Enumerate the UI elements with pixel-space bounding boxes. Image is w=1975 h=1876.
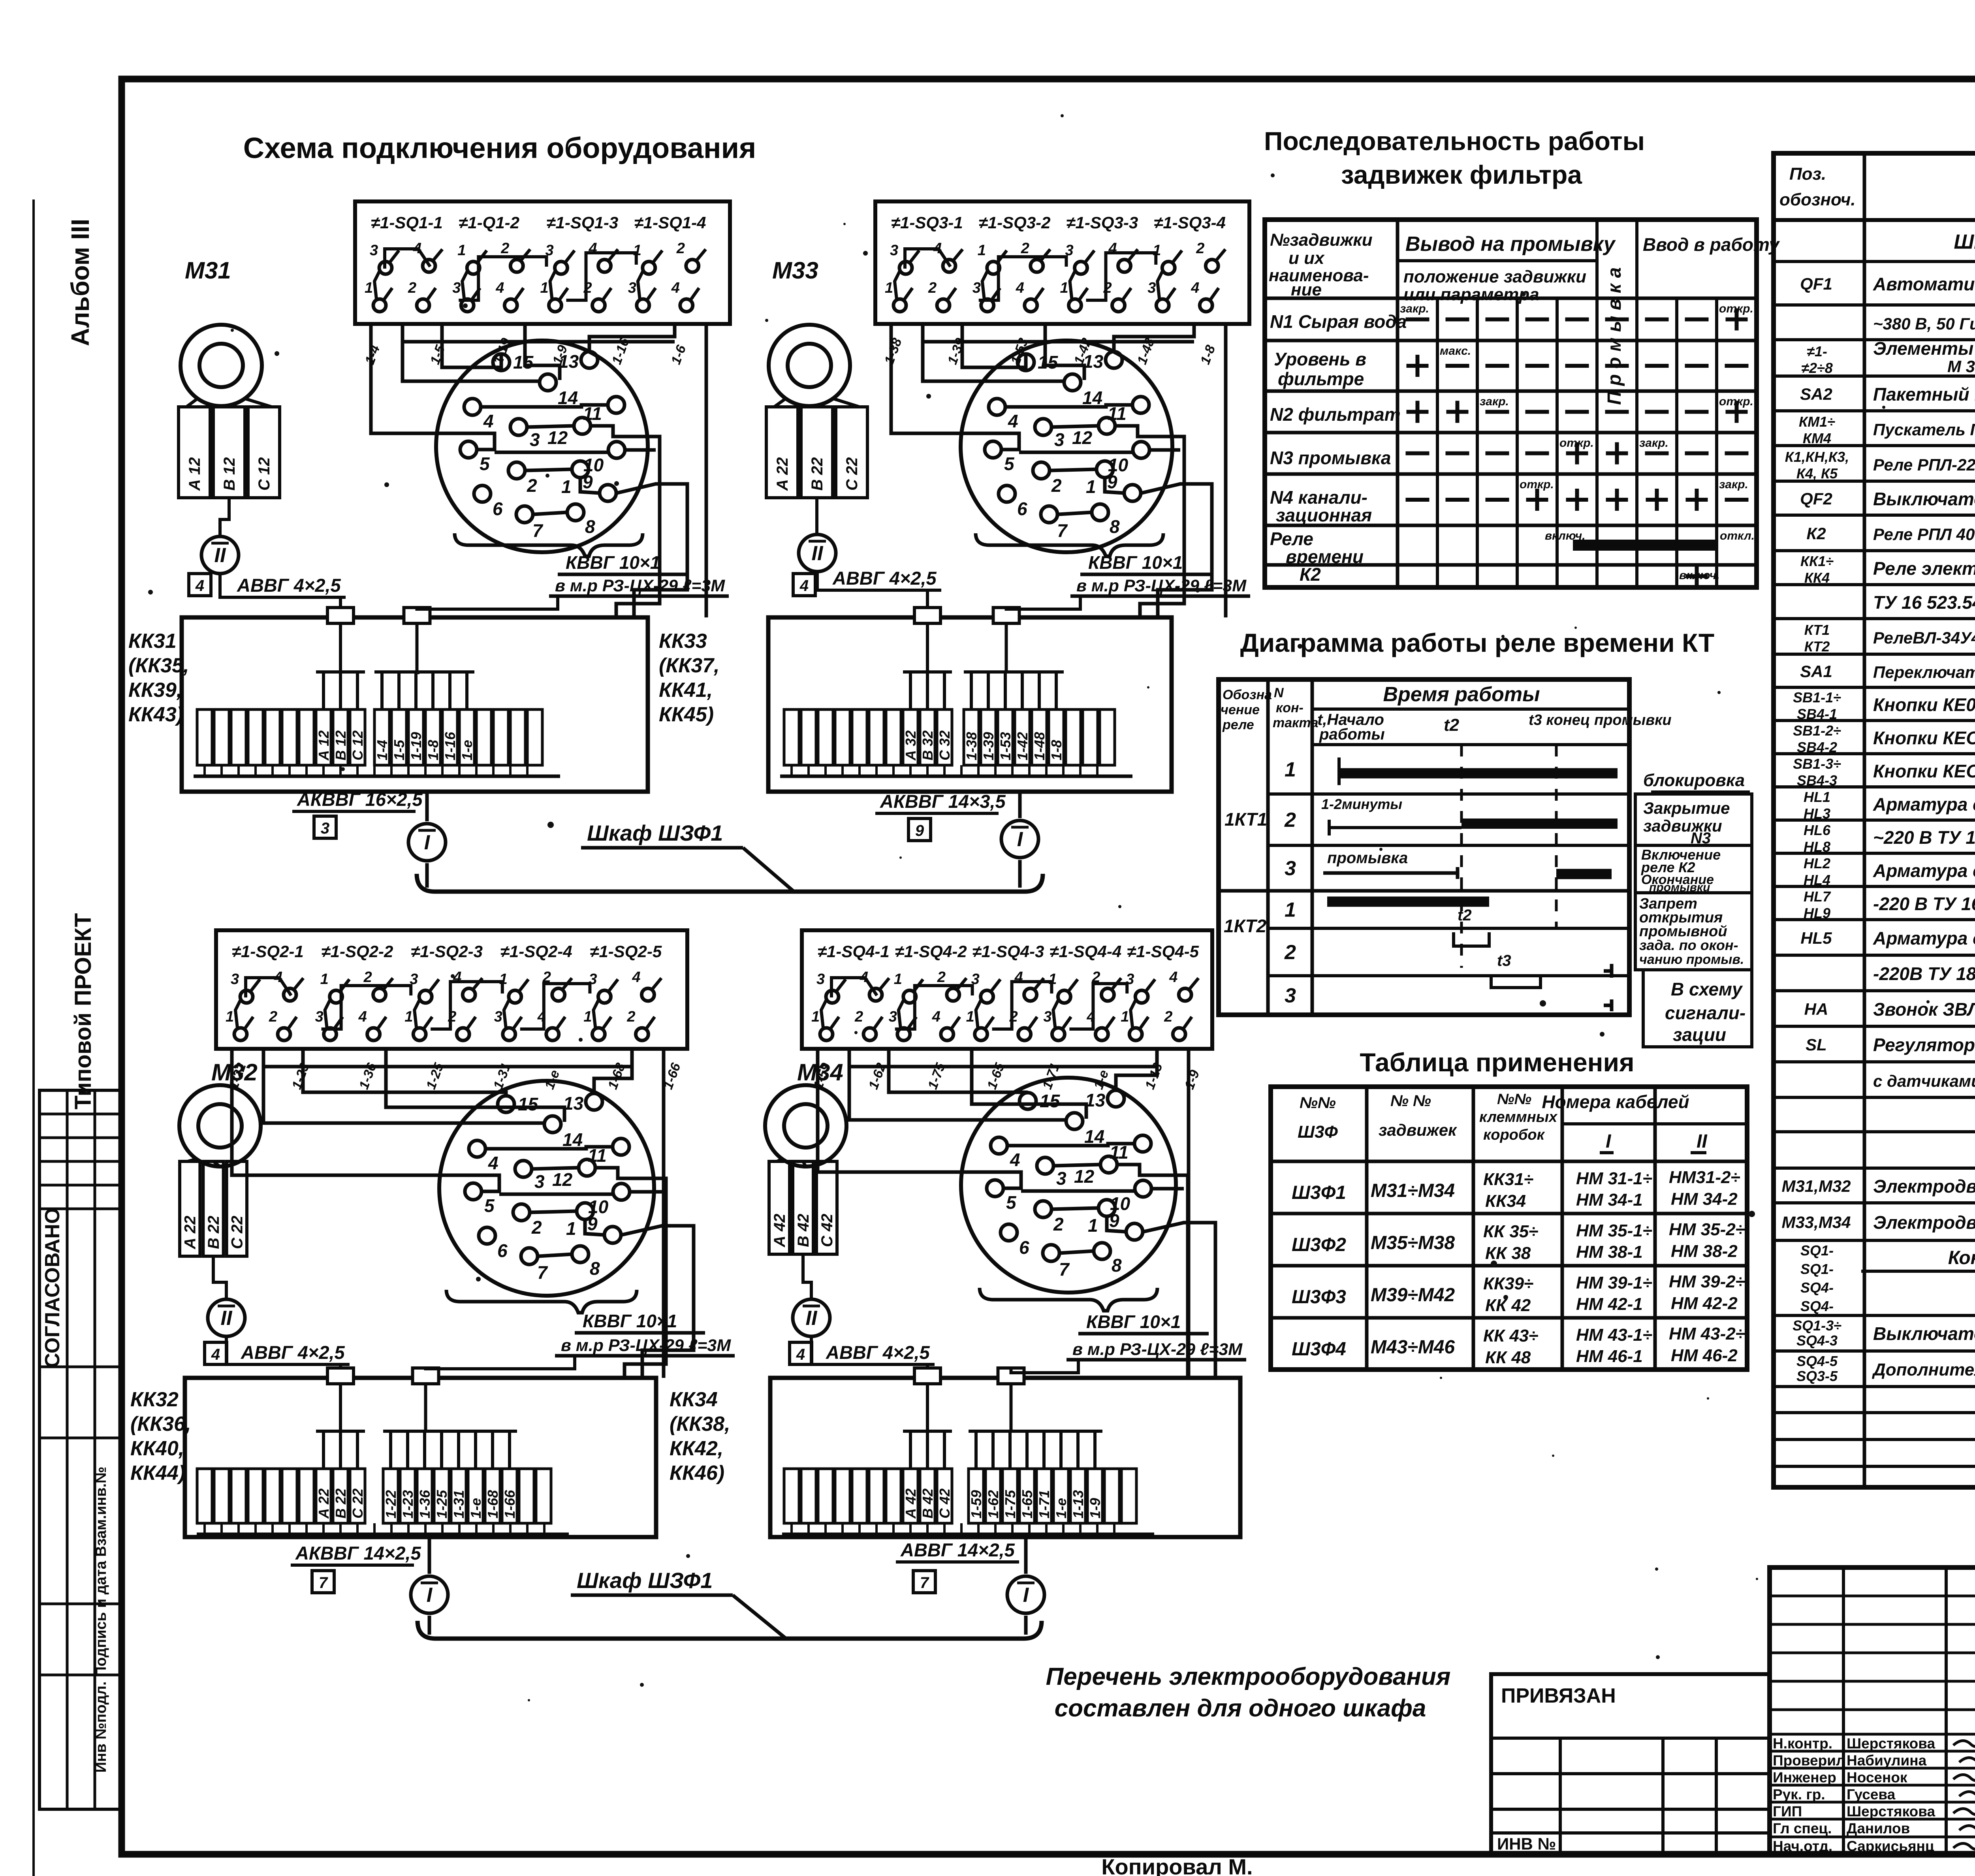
svg-text:1: 1	[540, 280, 549, 296]
svg-text:8: 8	[1112, 1255, 1122, 1276]
sheet outer edge left	[32, 199, 35, 1876]
svg-text:ние: ние	[1291, 280, 1322, 299]
limit switch ≠1-SQ1-3	[540, 213, 619, 312]
svg-text:2: 2	[854, 1009, 863, 1025]
svg-text:2: 2	[1284, 809, 1296, 832]
limit switch ≠1-SQ4-3	[966, 942, 1044, 1041]
svg-text:чанию промыв.: чанию промыв.	[1639, 952, 1744, 967]
svg-text:2: 2	[269, 1009, 277, 1025]
svg-text:I: I	[1017, 828, 1023, 851]
svg-text:≠1-SQ4-4: ≠1-SQ4-4	[1050, 942, 1121, 961]
svg-text:В 32: В 32	[920, 730, 936, 760]
svg-text:задвижек: задвижек	[1379, 1121, 1457, 1139]
table: Posledovatelnost raboty zadvizhek filtra	[1264, 126, 1780, 587]
svg-text:НМ 38-2: НМ 38-2	[1671, 1242, 1738, 1261]
svg-text:1-13: 1-13	[1070, 1490, 1086, 1518]
svg-text:Данилов: Данилов	[1847, 1820, 1910, 1836]
svg-text:К4, К5: К4, К5	[1796, 465, 1838, 482]
svg-text:КК4: КК4	[1804, 570, 1830, 586]
svg-text:≠1-SQ2-4: ≠1-SQ2-4	[500, 942, 572, 961]
svg-text:6: 6	[493, 499, 503, 519]
svg-text:составлен для одного шкафа: составлен для одного шкафа	[1055, 1695, 1426, 1722]
svg-text:6: 6	[1017, 499, 1027, 519]
svg-text:Кнопки КЕО 11УЗ: Кнопки КЕО 11УЗ исп. 28	[1873, 761, 1975, 781]
svg-text:≠1-SQ3-1: ≠1-SQ3-1	[891, 213, 963, 232]
svg-text:HL2: HL2	[1804, 855, 1830, 871]
svg-text:t3 конец промывки: t3 конец промывки	[1529, 712, 1672, 728]
svg-text:Ш3Ф3: Ш3Ф3	[1292, 1287, 1346, 1308]
terminal box КК31	[182, 617, 648, 792]
svg-text:Копировал М.: Копировал М.	[1101, 1854, 1253, 1876]
svg-text:≠1-SQ1-4: ≠1-SQ1-4	[634, 213, 706, 232]
left margin stamp table	[39, 1090, 122, 1809]
svg-text:1-59: 1-59	[968, 1490, 984, 1518]
svg-text:7: 7	[1059, 1259, 1070, 1280]
wires connector to terminal box right side	[1183, 1175, 1215, 1378]
svg-text:А 22: А 22	[316, 1488, 332, 1519]
svg-text:SB1-2÷: SB1-2÷	[1793, 723, 1841, 739]
svg-text:12: 12	[1072, 427, 1093, 448]
cable label КВВГ 10×1	[1070, 552, 1250, 596]
svg-text:КК 48: КК 48	[1485, 1348, 1531, 1367]
svg-text:АВВГ 4×2,5: АВВГ 4×2,5	[832, 568, 937, 589]
svg-text:1-2минуты: 1-2минуты	[1321, 796, 1402, 812]
cable marker box 9	[908, 819, 931, 841]
svg-text:НМ 35-2÷: НМ 35-2÷	[1669, 1220, 1745, 1239]
svg-text:14: 14	[558, 388, 578, 408]
svg-text:HL5: HL5	[1800, 929, 1832, 947]
svg-text:≠1-SQ3-2: ≠1-SQ3-2	[979, 213, 1051, 232]
svg-text:3: 3	[1043, 1009, 1051, 1025]
svg-text:Шкаф ШЗФ1: Шкаф ШЗФ1	[587, 820, 723, 845]
svg-text:М34: М34	[797, 1059, 843, 1086]
limit switch bank ≠1	[216, 930, 687, 1049]
bank lead-out wire labels	[226, 1061, 684, 1091]
svg-text:1: 1	[885, 280, 893, 296]
svg-text:1-71: 1-71	[1036, 1490, 1052, 1518]
svg-text:SQ1-3÷: SQ1-3÷	[1793, 1317, 1841, 1334]
svg-text:II: II	[221, 1307, 233, 1330]
limit switch ≠1-SQ1-1	[365, 213, 443, 312]
svg-text:КМ4: КМ4	[1803, 430, 1831, 446]
svg-text:№№: №№	[1497, 1091, 1531, 1108]
svg-text:включ.: включ.	[1679, 569, 1720, 582]
svg-text:2: 2	[527, 475, 537, 496]
svg-text:КК 43÷: КК 43÷	[1483, 1326, 1538, 1345]
svg-text:М31: М31	[185, 257, 231, 284]
cabinet boundary line Shkaf ShZF1	[417, 820, 1043, 892]
svg-text:Закрытие: Закрытие	[1643, 799, 1730, 817]
svg-text:3: 3	[534, 1171, 545, 1192]
svg-text:3: 3	[231, 971, 239, 988]
svg-text:КК 38: КК 38	[1485, 1244, 1531, 1263]
svg-text:закр.: закр.	[1400, 302, 1429, 315]
table: Tablitsa primeneniya	[1271, 1048, 1747, 1370]
svg-text:С 42: С 42	[937, 1488, 953, 1518]
svg-text:3: 3	[1285, 984, 1296, 1007]
svg-text:9: 9	[583, 472, 593, 492]
svg-text:3: 3	[315, 1009, 324, 1025]
svg-text:НМ 43-2÷: НМ 43-2÷	[1669, 1324, 1745, 1343]
svg-text:Звонок ЗВЛ-220 ТУ16.739.059-7: Звонок ЗВЛ-220 ТУ16.739.059-76	[1873, 999, 1975, 1020]
svg-text:положение задвижки: положение задвижки	[1403, 267, 1586, 286]
svg-text:2: 2	[408, 280, 416, 296]
svg-text:3: 3	[1056, 1168, 1066, 1189]
table: Diagramma raboty rele vremeni KT	[1219, 628, 1752, 1047]
svg-text:1-42: 1-42	[1014, 732, 1031, 760]
cable brace	[455, 533, 643, 556]
svg-text:-220 В ТУ 16.535.582-76: -220 В ТУ 16.535.582-76	[1873, 894, 1975, 914]
svg-text:1-8: 1-8	[1048, 740, 1065, 760]
svg-text:Набиулина: Набиулина	[1847, 1752, 1927, 1769]
svg-text:В 42: В 42	[795, 1214, 812, 1248]
wires connector to terminal box right side	[616, 437, 687, 617]
svg-text:2: 2	[1284, 941, 1296, 964]
note: perechen elektrooborudovaniya	[1046, 1663, 1451, 1722]
svg-text:HL8: HL8	[1804, 839, 1830, 855]
svg-text:15: 15	[518, 1094, 539, 1114]
svg-text:SB1-3÷: SB1-3÷	[1793, 756, 1841, 772]
svg-text:Альбом III: Альбом III	[66, 219, 94, 346]
svg-text:коробок: коробок	[1483, 1127, 1545, 1143]
svg-text:Схема подключения оборудования: Схема подключения оборудования	[243, 132, 756, 164]
svg-text:№задвижки: №задвижки	[1270, 230, 1373, 250]
bank internal wiring	[905, 249, 1156, 300]
svg-text:2: 2	[1053, 1214, 1064, 1234]
svg-text:II: II	[806, 1307, 818, 1330]
svg-text:КТ2: КТ2	[1804, 638, 1830, 655]
svg-text:1: 1	[978, 242, 986, 259]
svg-text:блокировка: блокировка	[1643, 771, 1745, 790]
svg-text:в м.р РЗ-ЦХ-29 ℓ=3М: в м.р РЗ-ЦХ-29 ℓ=3М	[1072, 1340, 1243, 1359]
connector circle М33	[953, 341, 1180, 552]
svg-text:ГИП: ГИП	[1773, 1803, 1802, 1820]
svg-text:4: 4	[483, 411, 494, 431]
svg-text:в м.р РЗ-ЦХ-29 ℓ=3М: в м.р РЗ-ЦХ-29 ℓ=3М	[1076, 576, 1247, 595]
svg-text:промывка: промывка	[1327, 849, 1408, 867]
svg-text:А 42: А 42	[771, 1214, 788, 1248]
svg-text:КВВГ 10×1: КВВГ 10×1	[566, 552, 660, 573]
svg-text:Переключатель ПКУ3-12U-4020УЗ,: Переключатель ПКУ3-12U-4020УЗ, ТУ 16 526…	[1873, 663, 1975, 681]
svg-text:SL: SL	[1806, 1035, 1827, 1054]
limit switch ≠1-SQ2-4	[494, 942, 572, 1041]
terminal box label КК32	[130, 1388, 191, 1485]
svg-text:1КТ1: 1КТ1	[1224, 809, 1267, 830]
svg-text:N2 фильтрат: N2 фильтрат	[1270, 404, 1401, 425]
svg-text:7: 7	[537, 1262, 548, 1283]
svg-text:4: 4	[1191, 280, 1199, 296]
svg-text:1-23: 1-23	[400, 1490, 416, 1518]
svg-text:1-4: 1-4	[374, 740, 390, 760]
svg-text:КК44): КК44)	[130, 1462, 185, 1485]
svg-text:1: 1	[1121, 1009, 1129, 1025]
svg-text:закр.: закр.	[1719, 478, 1748, 491]
terminal box КК34	[770, 1378, 1240, 1537]
svg-text:С 42: С 42	[818, 1214, 836, 1248]
svg-text:С 12: С 12	[256, 457, 273, 491]
svg-text:7: 7	[319, 1574, 328, 1592]
svg-text:≠1-SQ4-5: ≠1-SQ4-5	[1127, 942, 1199, 961]
svg-text:№ №: № №	[1390, 1092, 1431, 1110]
svg-text:КМ1÷: КМ1÷	[1799, 414, 1835, 430]
svg-text:2: 2	[928, 280, 937, 296]
svg-text:ТУ 16 523.549 -78: ТУ 16 523.549 -78	[1873, 592, 1975, 613]
svg-text:1-38: 1-38	[963, 732, 980, 760]
svg-text:Ввод в работу: Ввод в работу	[1643, 234, 1780, 255]
svg-text:КК42,: КК42,	[670, 1437, 723, 1460]
svg-text:5: 5	[1004, 453, 1015, 474]
svg-text:13: 13	[559, 351, 579, 372]
svg-text:Шерстякова: Шерстякова	[1847, 1735, 1935, 1752]
svg-text:Ш3Ф1: Ш3Ф1	[1292, 1182, 1346, 1203]
svg-text:НМ 31-1÷: НМ 31-1÷	[1576, 1169, 1652, 1188]
svg-text:КК33: КК33	[659, 630, 707, 653]
svg-text:кон-: кон-	[1276, 700, 1303, 715]
svg-text:3: 3	[816, 971, 825, 988]
svg-text:откл.: откл.	[1720, 529, 1755, 542]
svg-text:С 22: С 22	[350, 1488, 366, 1518]
svg-text:Выключатель муфты моментов: Выключатель муфты моментов	[1873, 1323, 1975, 1344]
svg-text:SQ4-3: SQ4-3	[1796, 1332, 1838, 1349]
svg-text:Диаграмма работы реле времени: Диаграмма работы реле времени КТ	[1240, 628, 1715, 657]
svg-text:SQ4-5: SQ4-5	[1796, 1353, 1838, 1369]
cabinet boundary line Shkaf ShZF1	[418, 1568, 1042, 1639]
svg-text:1-65: 1-65	[1019, 1490, 1035, 1518]
terminal box label КК33	[659, 630, 720, 726]
svg-text:1-39: 1-39	[980, 732, 997, 760]
svg-text:К2: К2	[1806, 524, 1826, 543]
wires bank to connector	[232, 1049, 664, 1378]
svg-text:15: 15	[1040, 1091, 1061, 1111]
svg-text:3: 3	[890, 242, 898, 259]
svg-text:КК46): КК46)	[670, 1462, 724, 1485]
svg-text:Перечень электрооборудования: Перечень электрооборудования	[1046, 1663, 1451, 1690]
svg-text:КК 42: КК 42	[1485, 1296, 1531, 1315]
svg-text:14: 14	[1084, 1126, 1104, 1147]
svg-text:(КК35,: (КК35,	[128, 654, 189, 677]
svg-text:Поз.: Поз.	[1789, 164, 1826, 184]
svg-text:1: 1	[365, 280, 373, 296]
svg-text:С 12: С 12	[350, 730, 366, 760]
svg-text:SQ4-: SQ4-	[1800, 1280, 1834, 1296]
svg-text:4: 4	[211, 1346, 220, 1363]
svg-text:В 22: В 22	[333, 1488, 349, 1518]
svg-text:ИНВ №: ИНВ №	[1497, 1835, 1556, 1853]
svg-text:8: 8	[1110, 516, 1120, 537]
svg-text:(КК38,: (КК38,	[670, 1413, 730, 1436]
svg-text:HL1: HL1	[1804, 789, 1830, 805]
svg-text:М32: М32	[211, 1059, 258, 1086]
limit switch bank ≠1	[802, 930, 1212, 1049]
wires bank to connector	[818, 1049, 1189, 1378]
limit switch ≠1-SQ4-1	[811, 942, 890, 1041]
motor cable strip А 22	[766, 407, 867, 498]
svg-text:АКВВГ 16×2,5: АКВВГ 16×2,5	[297, 789, 423, 810]
terminal bottom bus	[194, 765, 560, 776]
svg-text:2: 2	[1164, 1009, 1172, 1025]
cable brace	[976, 533, 1163, 556]
svg-text:SQ1-: SQ1-	[1800, 1261, 1834, 1277]
limit switch ≠1-SQ3-1	[885, 213, 963, 312]
svg-text:К2: К2	[1300, 564, 1321, 585]
cable marker box 4	[790, 1342, 812, 1364]
svg-text:Ш3Ф4: Ш3Ф4	[1292, 1339, 1346, 1360]
svg-text:АКВВГ 14×2,5: АКВВГ 14×2,5	[295, 1543, 421, 1564]
svg-text:1: 1	[1285, 758, 1296, 781]
svg-text:КК41,: КК41,	[659, 679, 713, 702]
wire connector cable to terminal box	[417, 596, 558, 609]
svg-text:2: 2	[1051, 475, 1062, 496]
node I М32	[411, 1576, 448, 1613]
cable label КВВГ 10×1	[1066, 1312, 1246, 1360]
limit switch ≠1-SQ2-2	[315, 942, 393, 1041]
svg-text:≠1-Q1-2: ≠1-Q1-2	[459, 213, 519, 232]
wire connector cable to terminal box	[426, 1356, 575, 1369]
svg-text:1-е: 1-е	[1053, 1498, 1069, 1518]
svg-text:1-53: 1-53	[997, 732, 1014, 760]
svg-text:9: 9	[1109, 1210, 1119, 1231]
svg-text:Шкаф Ш3Ф1(Ш3Ф2-Ш3Ф4): Шкаф Ш3Ф1(Ш3Ф2-Ш3Ф4)	[1954, 231, 1975, 254]
svg-text:Ш3Ф2: Ш3Ф2	[1292, 1234, 1346, 1255]
wire node I to cabinet line	[1024, 1616, 1028, 1635]
svg-text:Саркисьянц: Саркисьянц	[1847, 1838, 1934, 1854]
svg-text:зада. по окон-: зада. по окон-	[1639, 937, 1738, 953]
svg-text:А 42: А 42	[903, 1488, 919, 1519]
title block	[1770, 1567, 1975, 1855]
svg-text:7: 7	[532, 520, 544, 541]
wire node II to terminal box	[817, 572, 927, 608]
svg-text:Гл спец.: Гл спец.	[1773, 1820, 1832, 1836]
svg-text:С 32: С 32	[937, 730, 953, 760]
svg-text:≠1-SQ3-4: ≠1-SQ3-4	[1154, 213, 1226, 232]
svg-text:с датчиками длиной 0,8м(чертёж: с датчиками длиной 0,8м(чертёж 4В2.329.5…	[1873, 1072, 1975, 1090]
svg-text:Рук. гр.: Рук. гр.	[1773, 1786, 1825, 1803]
svg-text:СОГЛАСОВАНО: СОГЛАСОВАНО	[41, 1208, 64, 1368]
svg-text:НМ 42-2: НМ 42-2	[1671, 1294, 1738, 1313]
svg-text:1: 1	[1285, 899, 1296, 922]
svg-text:II: II	[1697, 1131, 1708, 1152]
svg-text:М43÷М46: М43÷М46	[1371, 1337, 1455, 1358]
svg-text:N3 промывка: N3 промывка	[1270, 448, 1391, 468]
svg-text:К1,КН,К3,: К1,КН,К3,	[1785, 449, 1849, 465]
wire terminal box to node I	[1018, 792, 1022, 818]
cable label АВВГ 4×2,5	[232, 575, 346, 597]
bank lead-out wire labels	[362, 336, 689, 367]
bank lead-out wire labels	[811, 1061, 1203, 1091]
svg-text:N: N	[1274, 685, 1284, 700]
svg-text:4: 4	[1169, 969, 1177, 986]
svg-text:закр.: закр.	[1480, 395, 1509, 408]
svg-text:1-е: 1-е	[459, 740, 475, 760]
svg-text:Кнопки КЕ011УЗ: Кнопки КЕ011УЗ исп. 23	[1873, 694, 1975, 715]
svg-text:SB4-1: SB4-1	[1797, 706, 1837, 722]
svg-text:SA2: SA2	[1800, 385, 1832, 403]
wires connector to terminal box right side	[1140, 437, 1212, 617]
svg-text:3: 3	[321, 820, 329, 837]
svg-text:≠1-SQ3-3: ≠1-SQ3-3	[1066, 213, 1138, 232]
svg-text:Кнопки КЕО 11УЗ: Кнопки КЕО 11УЗ исп. 27	[1873, 728, 1975, 748]
cable label АВВГ 4×2,5	[821, 1342, 935, 1364]
svg-text:Электродвигатель АОЛС2-11-4, 0: Электродвигатель АОЛС2-11-4, 0,6 кВт ~38…	[1873, 1176, 1975, 1197]
svg-text:1-48: 1-48	[1031, 732, 1048, 760]
cable label АВВГ 4×2,5	[236, 1342, 350, 1364]
terminal box label КК34	[670, 1388, 730, 1485]
svg-text:1: 1	[561, 476, 572, 497]
svg-text:закр.: закр.	[1639, 437, 1668, 450]
svg-text:SQ1-: SQ1-	[1800, 1242, 1834, 1259]
svg-text:А 12: А 12	[316, 730, 332, 761]
privyazan block	[1491, 1674, 1770, 1854]
svg-text:4: 4	[1016, 280, 1024, 296]
svg-text:Выключатель А63-МУЗ ТУ.16.522.: Выключатель А63-МУЗ ТУ.16.522.110-74	[1873, 489, 1975, 509]
svg-text:≠1-SQ2-1: ≠1-SQ2-1	[232, 942, 304, 961]
terminal box label КК31	[128, 630, 189, 726]
svg-text:1: 1	[566, 1218, 576, 1239]
connector circle М34	[953, 1078, 1184, 1293]
svg-text:1-36: 1-36	[417, 1490, 433, 1518]
svg-text:Таблица применения: Таблица применения	[1360, 1048, 1634, 1077]
svg-text:3: 3	[972, 280, 981, 296]
motor М32	[179, 1059, 261, 1167]
svg-text:13: 13	[1083, 351, 1104, 372]
svg-text:Конечные выключатели: Конечные выключатели	[1948, 1248, 1975, 1268]
svg-text:N1 Сырая вода: N1 Сырая вода	[1270, 311, 1407, 332]
svg-text:6: 6	[497, 1240, 508, 1261]
svg-text:В схему: В схему	[1671, 979, 1743, 999]
limit switch bank ≠1	[875, 201, 1249, 324]
svg-text:3: 3	[1285, 857, 1296, 880]
wire node II to terminal box	[811, 1336, 927, 1368]
svg-text:~380 В, 50 Гц, Iрасц. =10А: ~380 В, 50 Гц, Iрасц. =10А Iотс.=1,2Iрас…	[1873, 314, 1975, 333]
svg-text:3: 3	[530, 429, 540, 450]
svg-text:1-е: 1-е	[468, 1498, 484, 1518]
svg-text:Пускатель ПМЛ150004,ПКП2004,22: Пускатель ПМЛ150004,ПКП2004,220В ТУ16.52…	[1873, 420, 1975, 439]
svg-text:откр.: откр.	[1520, 478, 1554, 491]
svg-text:≠1-: ≠1-	[1807, 343, 1827, 359]
table: parts list	[1774, 153, 1975, 1487]
svg-text:4: 4	[796, 1346, 805, 1363]
node II М32	[208, 1299, 245, 1336]
svg-text:НМ 38-1: НМ 38-1	[1576, 1242, 1643, 1262]
svg-text:SQ4-: SQ4-	[1800, 1298, 1834, 1314]
node II М31	[201, 536, 239, 574]
cable marker box 4	[189, 574, 211, 596]
svg-text:1: 1	[966, 1009, 974, 1025]
svg-text:КК34: КК34	[1485, 1191, 1526, 1211]
svg-text:3: 3	[370, 242, 378, 259]
limit switch ≠1-SQ4-4	[1043, 942, 1121, 1041]
svg-text:1: 1	[404, 1009, 413, 1025]
wire node I to cabinet line	[428, 1616, 431, 1635]
svg-text:I: I	[424, 831, 431, 854]
svg-text:НМ 34-2: НМ 34-2	[1671, 1189, 1738, 1209]
svg-text:HL9: HL9	[1804, 905, 1830, 921]
svg-text:14: 14	[562, 1129, 583, 1150]
svg-text:С 22: С 22	[228, 1216, 246, 1249]
svg-text:КК39,: КК39,	[128, 679, 182, 702]
svg-text:Уровень в: Уровень в	[1274, 349, 1366, 369]
svg-text:Носенок: Носенок	[1847, 1769, 1907, 1786]
svg-text:Промывка: Промывка	[1604, 262, 1625, 405]
svg-text:№№: №№	[1300, 1094, 1336, 1112]
svg-text:в м.р РЗ-ЦХ-29 ℓ=3М: в м.р РЗ-ЦХ-29 ℓ=3М	[561, 1336, 731, 1355]
bank internal wiring	[246, 978, 590, 1029]
svg-text:А 22: А 22	[182, 1216, 199, 1250]
svg-text:Гусева: Гусева	[1847, 1786, 1896, 1803]
svg-text:НМ 46-1: НМ 46-1	[1576, 1347, 1643, 1366]
svg-text:Время работы: Время работы	[1383, 683, 1540, 706]
svg-text:РелеВЛ-34У4,~220В,50Гц,1÷100ми: РелеВЛ-34У4,~220В,50Гц,1÷100мин.ТУ16.523…	[1873, 628, 1975, 647]
